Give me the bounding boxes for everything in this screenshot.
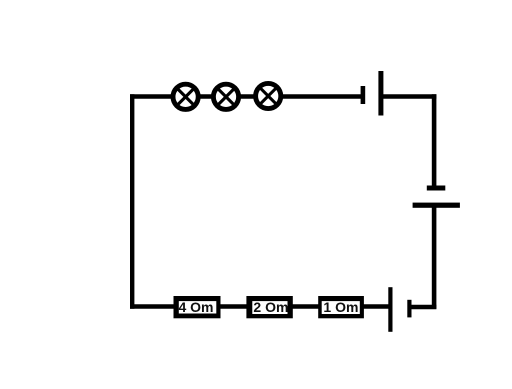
resistor R2, value 2 Om — [246, 296, 292, 318]
wire: top horizontal from left corner to battery B1 — [130, 94, 363, 98]
svg-text:1 Om: 1 Om — [323, 299, 358, 315]
battery B2 (right middle cell) — [413, 186, 460, 208]
svg-text:2 Om: 2 Om — [253, 299, 288, 315]
wire: right vertical lower (battery B2 to bottom-right corner) — [432, 205, 437, 309]
lamp L2 — [213, 84, 238, 109]
resistor R1, value 4 Om — [174, 296, 221, 318]
wire: from battery B1 to top-right corner — [381, 94, 436, 99]
wire: right vertical upper (to battery B2) — [432, 94, 437, 188]
wire: from battery B3 to bottom-right corner — [409, 305, 436, 310]
battery B1 (top right cell) — [361, 71, 384, 116]
resistor R3, value 1 Om — [318, 296, 364, 318]
wire: left vertical side — [130, 94, 134, 308]
lamp L1 — [173, 84, 198, 109]
battery B3 (bottom right cell) — [388, 287, 411, 332]
wire: bottom horizontal from left corner to battery B3 — [130, 304, 390, 309]
lamp L3 — [256, 83, 281, 108]
svg-text:4 Om: 4 Om — [178, 299, 213, 315]
